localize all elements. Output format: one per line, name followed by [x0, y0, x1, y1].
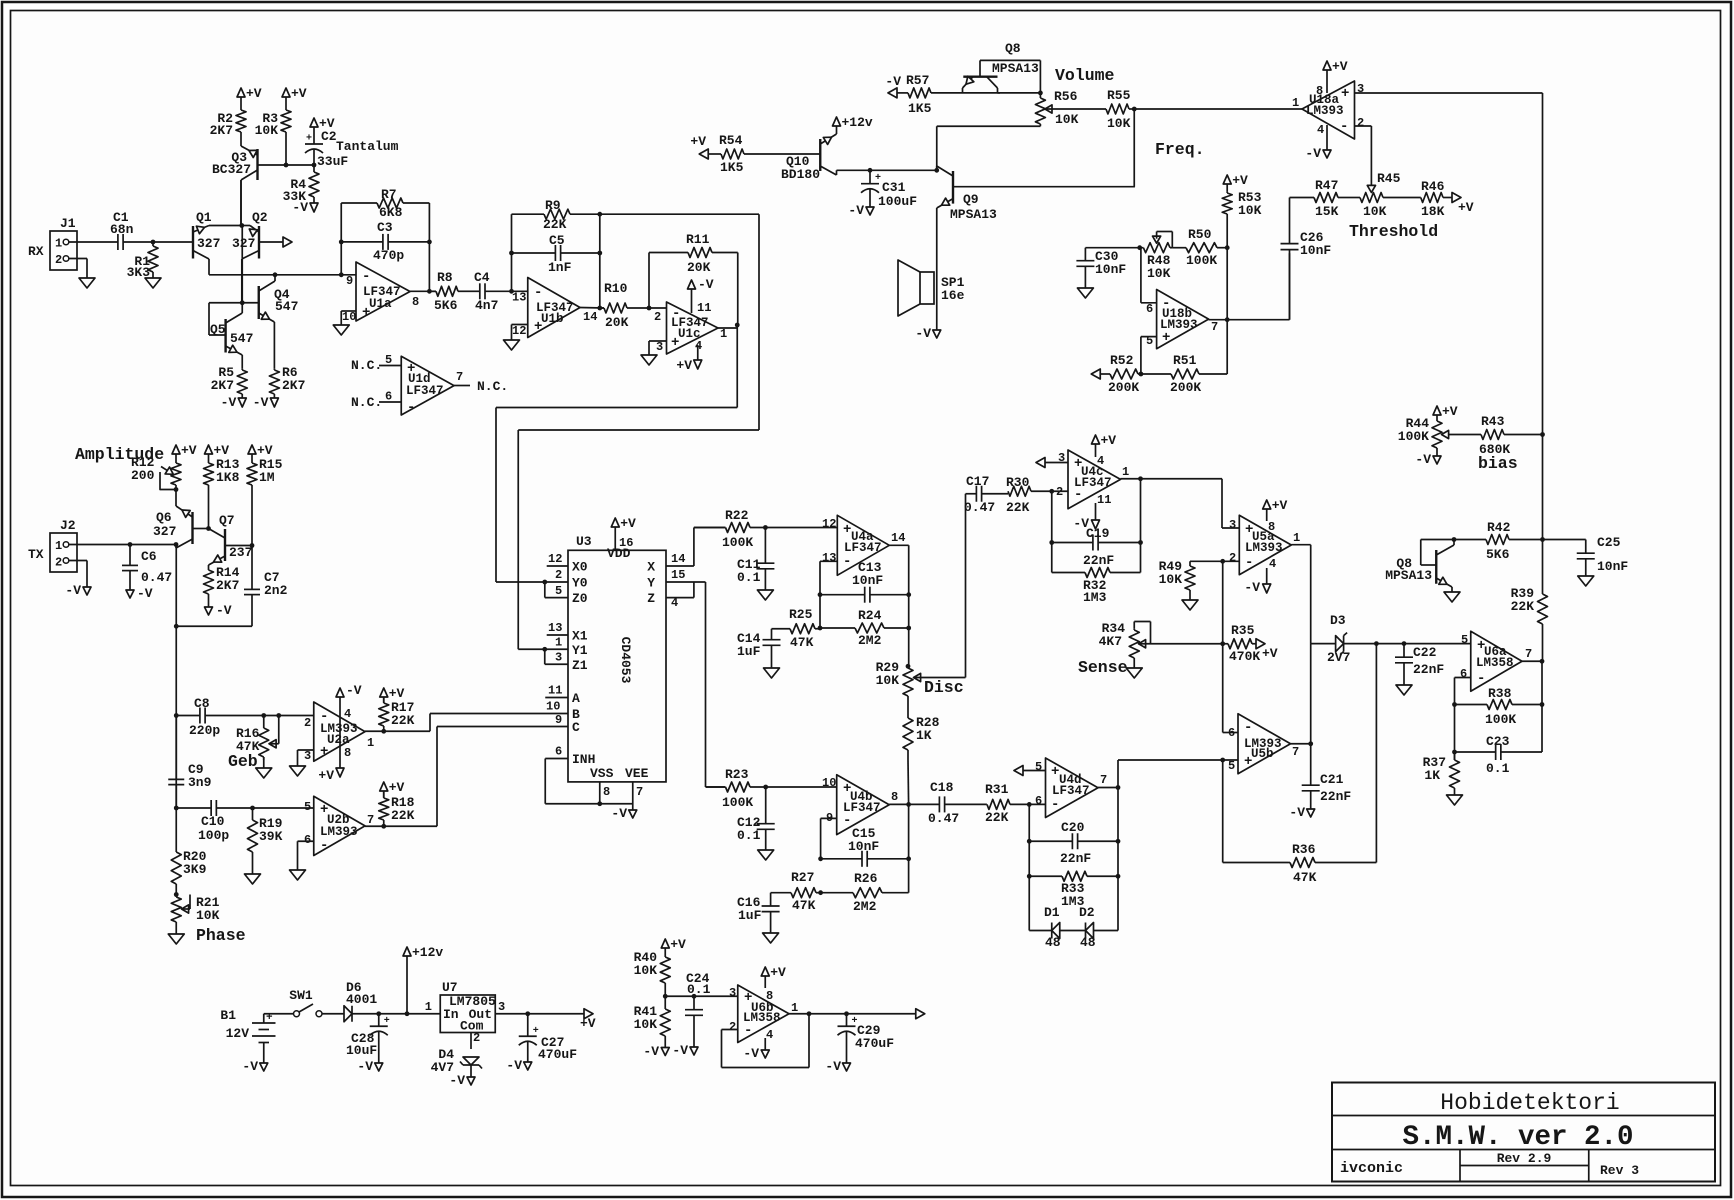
svg-text:1: 1 [1122, 465, 1129, 479]
svg-text:-V: -V [292, 200, 308, 215]
svg-text:R35: R35 [1231, 623, 1255, 638]
svg-text:14: 14 [671, 552, 685, 566]
power +V [310, 116, 335, 138]
resistor R18 [379, 792, 415, 827]
input arrow pin3 [1036, 458, 1068, 468]
wire U2a out [365, 714, 568, 732]
wire R40 to U6b [665, 995, 738, 997]
label Sense [1078, 658, 1128, 677]
potentiometer R56 [1035, 89, 1106, 127]
junction [174, 487, 179, 492]
svg-text:10: 10 [822, 776, 836, 790]
svg-text:2: 2 [654, 310, 661, 324]
svg-text:N.C.: N.C. [351, 395, 382, 410]
svg-text:C4: C4 [474, 270, 490, 285]
wire [124, 241, 193, 243]
svg-text:2: 2 [55, 253, 62, 267]
junction [1220, 559, 1225, 564]
svg-text:+V: +V [580, 1016, 596, 1031]
wire pin2 [1052, 490, 1068, 492]
junction [906, 626, 911, 631]
wire C5/R10 vertical [599, 214, 601, 308]
resistor R10 [600, 281, 649, 330]
ground [504, 340, 520, 350]
svg-text:C23: C23 [1486, 734, 1510, 749]
capacitor C3 [341, 220, 429, 263]
resistor R31 [985, 782, 1029, 825]
svg-text:MPSA13: MPSA13 [950, 207, 997, 222]
svg-text:200: 200 [131, 468, 155, 483]
svg-text:LF347: LF347 [406, 384, 444, 398]
svg-text:-V: -V [357, 1059, 373, 1074]
svg-text:+V: +V [291, 86, 307, 101]
pin A 11 [545, 684, 568, 698]
power -V below U6b [743, 1038, 769, 1061]
svg-text:-: - [534, 285, 542, 301]
svg-text:LF347: LF347 [844, 541, 882, 555]
wire pin6 bracket [1223, 732, 1238, 734]
svg-text:-: - [843, 554, 851, 570]
pin B 10 [546, 700, 560, 714]
junction [597, 306, 602, 311]
switch SW1 [289, 988, 322, 1017]
wire J1 pin2 to ground [69, 259, 87, 279]
svg-text:48: 48 [1080, 935, 1096, 950]
svg-text:-V: -V [643, 1044, 659, 1059]
wire pin5 drop [1223, 760, 1288, 863]
wire pin10 bracket [341, 311, 356, 325]
ground [168, 928, 184, 944]
capacitor C22 [1395, 644, 1444, 685]
resistor R7 [341, 187, 429, 220]
junction [1220, 758, 1225, 763]
svg-text:R8: R8 [437, 270, 453, 285]
svg-text:5: 5 [555, 584, 562, 598]
potentiometer R44 [1398, 415, 1449, 456]
junction [250, 543, 255, 548]
svg-text:R11: R11 [686, 232, 710, 247]
svg-text:1: 1 [555, 636, 562, 650]
power -V [825, 1056, 850, 1074]
svg-text:INH: INH [572, 752, 595, 767]
svg-text:10K: 10K [634, 963, 658, 978]
junction [818, 592, 823, 597]
svg-text:ivconic: ivconic [1340, 1160, 1403, 1177]
svg-text:2: 2 [729, 1020, 736, 1034]
op-amp U6a [1460, 631, 1532, 691]
junction [1452, 537, 1457, 542]
svg-text:8: 8 [891, 790, 898, 804]
junction [376, 1011, 381, 1016]
svg-text:5: 5 [1035, 760, 1042, 774]
power -V [885, 74, 901, 98]
svg-text:-: - [744, 1023, 752, 1039]
junction [1132, 107, 1137, 112]
junction [1402, 641, 1407, 646]
svg-text:6: 6 [555, 745, 562, 759]
svg-text:B1: B1 [220, 1008, 236, 1023]
power +V [282, 86, 307, 108]
wire pin4 supply [697, 345, 699, 360]
power -V VEE [611, 806, 636, 821]
svg-text:C5: C5 [549, 233, 565, 248]
svg-text:22nF: 22nF [1083, 553, 1114, 568]
resistor R6 [269, 365, 305, 398]
capacitor C21 [1302, 772, 1352, 809]
svg-text:1: 1 [55, 237, 62, 251]
transistor Q3 [212, 133, 258, 226]
junction [818, 890, 823, 895]
wire D1-D2 [1060, 930, 1086, 932]
svg-text:-V: -V [1289, 805, 1305, 820]
svg-text:4: 4 [766, 1028, 773, 1042]
resistor R43 [1442, 414, 1543, 457]
wire pin9 bracket [821, 818, 837, 858]
resistor R14 [204, 565, 240, 598]
svg-text:LM393: LM393 [1245, 541, 1283, 555]
svg-text:R55: R55 [1107, 88, 1131, 103]
label Threshold [1349, 222, 1438, 241]
svg-text:C: C [572, 720, 580, 735]
power +V above U18a [1323, 59, 1348, 93]
pin C 9 [555, 713, 562, 727]
resistor R46 [1421, 179, 1452, 219]
wire pin3 [1355, 92, 1543, 94]
svg-text:C31: C31 [882, 180, 906, 195]
resistor R41 [634, 996, 671, 1047]
svg-text:-V: -V [65, 583, 81, 598]
label Geb [228, 752, 258, 771]
output arrow [916, 1009, 925, 1019]
svg-text:R26: R26 [854, 871, 878, 886]
svg-text:3: 3 [1357, 82, 1364, 96]
svg-text:20K: 20K [687, 260, 711, 275]
svg-text:16e: 16e [941, 288, 965, 303]
svg-text:-V: -V [449, 1073, 465, 1088]
svg-text:+: + [671, 335, 679, 351]
svg-text:3n9: 3n9 [188, 775, 212, 790]
svg-text:C8: C8 [194, 696, 210, 711]
svg-text:2: 2 [555, 568, 562, 582]
svg-text:14: 14 [583, 310, 597, 324]
junction [509, 251, 514, 256]
power -V below U5a [1244, 568, 1270, 595]
svg-text:327: 327 [197, 236, 220, 251]
capacitor C11 [737, 528, 774, 591]
svg-text:33uF: 33uF [317, 154, 348, 169]
svg-text:2K7: 2K7 [216, 578, 239, 593]
wire to U6a pin5 [1404, 643, 1471, 645]
wire R36 vertical [1375, 644, 1377, 863]
svg-text:547: 547 [275, 299, 298, 314]
svg-text:5: 5 [1461, 633, 1468, 647]
svg-text:1K8: 1K8 [216, 470, 240, 485]
op-amp U6b [729, 985, 798, 1043]
ground [758, 850, 774, 860]
battery B1 [220, 1008, 275, 1056]
ground [763, 933, 779, 943]
wire R55 to U18a out [1134, 108, 1302, 110]
potentiometer R12 [131, 455, 181, 490]
junction [1027, 802, 1032, 807]
wire U4a out [889, 545, 908, 666]
svg-text:+V: +V [389, 686, 405, 701]
svg-text:In: In [443, 1007, 459, 1022]
svg-text:1: 1 [425, 1000, 432, 1014]
svg-text:R22: R22 [725, 508, 749, 523]
svg-text:LM393: LM393 [320, 825, 358, 839]
op-amp U5b [1228, 714, 1299, 774]
pin 16 label [619, 536, 633, 550]
svg-text:7: 7 [1525, 647, 1532, 661]
svg-text:12: 12 [548, 552, 562, 566]
svg-text:9: 9 [346, 274, 353, 288]
svg-text:10uF: 10uF [346, 1043, 377, 1058]
connector J1 [28, 216, 77, 270]
op-amp U1d [385, 353, 463, 416]
svg-text:C3: C3 [377, 220, 393, 235]
svg-text:SW1: SW1 [289, 988, 313, 1003]
power +V [1433, 404, 1458, 419]
wire C25 tap [1543, 539, 1586, 541]
resistor R4 [283, 165, 319, 204]
junction [174, 542, 179, 547]
transistor Q7 [209, 513, 253, 568]
resistor R2 [210, 108, 246, 138]
svg-text:+: + [1162, 330, 1170, 346]
svg-text:+V: +V [181, 443, 197, 458]
power -V [65, 578, 91, 598]
wire U6b out [789, 1013, 916, 1015]
junction [597, 212, 602, 217]
wire pin5 bracket [1141, 337, 1157, 374]
ground [1447, 795, 1463, 805]
wire U4c out [1121, 478, 1223, 480]
svg-text:A: A [572, 691, 580, 706]
svg-text:RX: RX [28, 244, 44, 259]
wire pin6 bracket [1141, 248, 1157, 303]
junction [763, 785, 768, 790]
capacitor C23 [1455, 734, 1543, 776]
svg-text:Hobidetektori: Hobidetektori [1440, 1090, 1619, 1116]
svg-text:1uF: 1uF [738, 908, 762, 923]
svg-text:2K7: 2K7 [282, 378, 305, 393]
pin Y0 2 [555, 568, 562, 582]
svg-text:-: - [1074, 487, 1082, 503]
title block frame [1332, 1083, 1715, 1182]
svg-text:R52: R52 [1110, 353, 1134, 368]
svg-text:+V: +V [1332, 59, 1348, 74]
svg-text:R24: R24 [858, 608, 882, 623]
svg-text:10K: 10K [1363, 204, 1387, 219]
junction [1027, 874, 1032, 879]
wire R9 node to Y1 [518, 214, 759, 649]
capacitor C12 [737, 787, 775, 850]
svg-text:C10: C10 [201, 814, 225, 829]
feedback R11 left [648, 253, 650, 309]
svg-text:7: 7 [367, 813, 374, 827]
pin VEE 7 [633, 782, 643, 810]
junction [276, 713, 281, 718]
svg-text:C21: C21 [1320, 772, 1344, 787]
svg-text:-V: -V [242, 1059, 258, 1074]
junction [735, 323, 740, 328]
ground [290, 766, 306, 776]
title Hobidetektori [1440, 1090, 1619, 1116]
svg-text:+V: +V [1272, 498, 1288, 513]
junction [509, 289, 514, 294]
wire SW1 to D6 [322, 1013, 344, 1015]
resistor R25 [772, 607, 821, 650]
op-amp U1c [654, 301, 727, 354]
svg-text:15K: 15K [1315, 204, 1339, 219]
junction [427, 289, 432, 294]
svg-text:R43: R43 [1481, 414, 1505, 429]
capacitor C15 [821, 826, 909, 867]
power +V [380, 686, 405, 703]
svg-text:Q8: Q8 [1005, 41, 1021, 56]
power +V [661, 937, 686, 956]
resistor R52 [1100, 353, 1141, 395]
svg-text:Threshold: Threshold [1349, 222, 1438, 241]
power +V above U6b [761, 965, 786, 988]
svg-text:47K: 47K [790, 635, 814, 650]
svg-text:100p: 100p [198, 828, 229, 843]
resistor R23 [706, 767, 837, 810]
svg-text:10nF: 10nF [848, 839, 879, 854]
junction [663, 994, 668, 999]
svg-text:1K: 1K [916, 728, 932, 743]
svg-text:+: + [306, 134, 312, 145]
svg-text:3: 3 [555, 651, 562, 665]
pin X1 13 [547, 621, 568, 635]
resistor R40 [634, 950, 671, 996]
pin X 14 [666, 552, 694, 566]
svg-text:C18: C18 [930, 780, 954, 795]
svg-text:12: 12 [512, 324, 526, 338]
svg-text:C6: C6 [141, 549, 157, 564]
wire U1a out [410, 290, 436, 292]
svg-text:11: 11 [697, 301, 711, 315]
wire J2 pin2 [69, 561, 87, 579]
svg-text:4n7: 4n7 [475, 298, 498, 313]
ground [757, 590, 773, 600]
power -V [357, 1056, 382, 1074]
ground [1578, 576, 1594, 586]
junction [206, 526, 211, 531]
svg-text:BC327: BC327 [212, 162, 251, 177]
op-amp U18b [1146, 290, 1218, 349]
svg-text:MPSA13: MPSA13 [1385, 568, 1432, 583]
svg-text:VEE: VEE [625, 766, 649, 781]
svg-text:R51: R51 [1173, 353, 1197, 368]
capacitor C27 polarized [519, 1014, 577, 1062]
svg-text:5: 5 [1228, 759, 1235, 773]
svg-text:X0: X0 [572, 560, 588, 575]
svg-text:2K7: 2K7 [210, 123, 233, 138]
ground [1126, 660, 1142, 678]
svg-text:-V: -V [506, 1058, 522, 1073]
svg-text:+V: +V [1101, 433, 1117, 448]
wire U1c out to Y0 [496, 325, 737, 582]
svg-text:1K5: 1K5 [908, 101, 932, 116]
svg-text:4: 4 [344, 707, 351, 721]
svg-text:7: 7 [636, 785, 643, 799]
svg-text:Q9: Q9 [963, 192, 979, 207]
power +V arrow [1256, 639, 1278, 661]
junction [1540, 702, 1545, 707]
junction [1225, 245, 1230, 250]
svg-text:10nF: 10nF [852, 573, 883, 588]
svg-text:0.47: 0.47 [964, 500, 995, 515]
wire pin3 bracket [649, 341, 667, 355]
svg-text:200K: 200K [1108, 380, 1139, 395]
svg-text:5: 5 [304, 800, 311, 814]
svg-text:R54: R54 [719, 133, 743, 148]
svg-text:100K: 100K [1398, 429, 1429, 444]
junction [844, 1011, 849, 1016]
svg-text:10K: 10K [1238, 203, 1262, 218]
svg-text:22K: 22K [391, 808, 415, 823]
svg-text:R25: R25 [789, 607, 813, 622]
svg-text:12: 12 [822, 517, 836, 531]
svg-text:22K: 22K [543, 217, 567, 232]
ground [79, 278, 95, 288]
op-amp U2b [304, 796, 374, 855]
junction [1225, 317, 1230, 322]
resistor R32 [1052, 568, 1141, 606]
svg-text:10: 10 [342, 310, 356, 324]
svg-text:-V: -V [1415, 452, 1431, 467]
svg-text:+V: +V [389, 780, 405, 795]
svg-text:Tantalum: Tantalum [336, 139, 399, 154]
wire U6b feedback [722, 1014, 810, 1068]
junction [818, 856, 823, 861]
svg-text:10K: 10K [255, 123, 279, 138]
svg-text:+V: +V [1232, 173, 1248, 188]
wire volume to Q9 base [1133, 109, 1135, 187]
op-amp U1a [342, 262, 419, 324]
svg-text:Freq.: Freq. [1155, 140, 1205, 159]
capacitor C1 [110, 210, 134, 250]
ground [1077, 288, 1093, 298]
op-amp U5a [1229, 515, 1300, 574]
junction [906, 856, 911, 861]
svg-text:6K8: 6K8 [379, 205, 403, 220]
resistor R26 [821, 871, 909, 914]
svg-text:3: 3 [1229, 518, 1236, 532]
IC U3 CD4053 [568, 534, 666, 782]
svg-text:Geb: Geb [228, 752, 258, 771]
svg-text:68n: 68n [110, 222, 134, 237]
power -V [205, 598, 232, 618]
svg-text:100K: 100K [1186, 253, 1217, 268]
wire pin6 [1029, 803, 1045, 805]
svg-text:1K: 1K [1424, 768, 1440, 783]
power +V arrow [580, 1009, 596, 1031]
svg-text:VSS: VSS [590, 766, 614, 781]
potentiometer R21 [171, 895, 219, 929]
svg-text:S.M.W. ver 2.0: S.M.W. ver 2.0 [1402, 1122, 1633, 1153]
wire U4c out to U5a pin3 [1222, 479, 1239, 528]
op-amp U4a [822, 515, 905, 575]
svg-text:+V: +V [318, 768, 334, 783]
junction [427, 240, 432, 245]
transistor Q2 [232, 210, 283, 303]
svg-text:MPSA13: MPSA13 [992, 61, 1039, 76]
pin X0 12 [547, 552, 568, 566]
power +V down [676, 358, 701, 373]
